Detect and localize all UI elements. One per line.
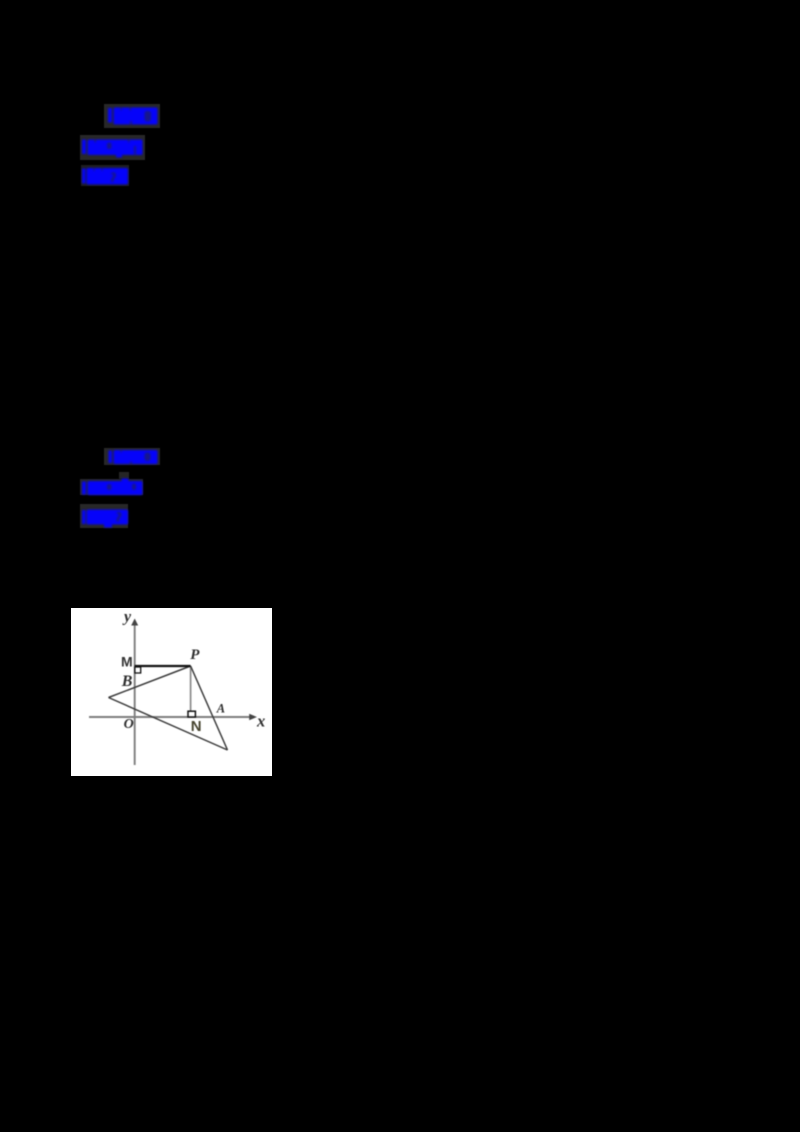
triangle side L-P bbox=[109, 666, 191, 698]
header 1.1 blue text blob bbox=[104, 104, 160, 128]
svg-text:N: N bbox=[191, 718, 202, 735]
right-angle square at N bbox=[188, 711, 195, 717]
white figure background bbox=[71, 608, 272, 776]
y-axis arrowhead bbox=[131, 619, 138, 626]
header 2.2 small gray tab bbox=[119, 472, 129, 479]
header 2.2 blue text blob bbox=[80, 471, 145, 497]
header 2.1 blue text blob bbox=[104, 448, 160, 466]
right-angle square at M bbox=[135, 667, 141, 673]
header 1.1 gray highlight bbox=[104, 104, 160, 128]
header 2.2 gray highlight bbox=[80, 479, 143, 496]
header 1.3 blue text blob bbox=[81, 166, 129, 186]
svg-text:x: x bbox=[256, 711, 265, 730]
header 2.1 gray highlight bbox=[104, 448, 160, 465]
svg-text:y: y bbox=[122, 608, 132, 625]
header 1.2 gray highlight bbox=[80, 135, 145, 160]
svg-text:M: M bbox=[121, 653, 133, 669]
segment MP horizontal bbox=[135, 665, 191, 667]
y-axis bbox=[134, 624, 136, 765]
header 1.2 blue text blob bbox=[80, 135, 145, 160]
svg-text:B: B bbox=[121, 673, 133, 690]
header 2.3 blue text blob bbox=[80, 504, 130, 530]
triangle side P-R bbox=[191, 666, 228, 750]
svg-text:A: A bbox=[216, 702, 225, 716]
svg-text:O: O bbox=[124, 717, 134, 732]
wire: segment PN vertical bbox=[190, 666, 192, 712]
header 2.3 gray highlight bbox=[80, 504, 128, 528]
triangle side L-R bbox=[109, 698, 228, 751]
x-axis bbox=[89, 716, 251, 718]
svg-text:P: P bbox=[190, 647, 200, 663]
x-axis arrowhead bbox=[249, 714, 257, 720]
header 1.3 gray highlight bbox=[81, 165, 129, 186]
